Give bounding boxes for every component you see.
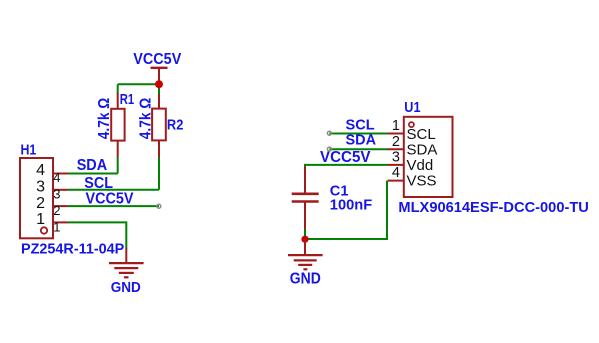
ground GND (right) bar 4 [303,268,307,270]
svg-text:VCC5V: VCC5V [133,51,181,68]
connector H1 pin 2 stub [53,205,68,207]
unconnected wire end dot (SCL) [327,131,331,135]
unconnected wire end dot (SDA) [327,147,331,151]
connector H1 body [20,158,53,238]
resistor R2 top pin [158,94,160,109]
svg-text:GND: GND [111,279,141,296]
wire net SDA (H1 pin4 row) [68,173,118,175]
ground GND (right) bar 2 [294,259,317,261]
wire U1 pin4 VSS down and to junction [305,181,387,239]
svg-text:3: 3 [36,179,45,196]
svg-text:4: 4 [53,170,60,185]
IC U1 pin1 indicator circle [409,122,414,127]
wire net SDA at U1 pin2 [329,148,388,150]
svg-text:3: 3 [392,149,400,165]
svg-text:U1: U1 [404,99,420,116]
wire R1 top vertical (green part) [117,84,119,94]
capacitor C1 plate 1 [292,193,319,196]
IC U1 pin 2 stub [388,148,404,150]
wire VCC5V node to R1 top corner [118,83,159,85]
connector H1 pin 3 stub [53,189,68,191]
svg-text:R2: R2 [167,117,184,134]
IC U1 body [404,117,453,197]
svg-text:VCC5V: VCC5V [320,149,371,166]
svg-text:1: 1 [53,219,60,234]
ground GND (left) bar 1 [109,262,144,264]
ground symbol GND (left): stem [125,248,127,263]
svg-text:PZ254R-11-04P: PZ254R-11-04P [21,241,124,258]
power flag VCC5V top: bar [151,67,168,69]
resistor R2 body [152,109,166,141]
unconnected wire end dot (VCC5V row) [157,204,161,208]
wire R2 bottom to SCL net [158,158,160,190]
svg-text:SDA: SDA [407,142,438,159]
wire H1 pin1 to GND [68,222,126,248]
svg-text:GND: GND [290,270,321,287]
junction dot VCC5V node [155,80,163,88]
resistor R1 top pin [117,93,119,109]
IC U1 pin 1 stub [388,133,404,135]
svg-text:VCC5V: VCC5V [86,191,134,208]
connector H1 pin1 indicator circle [41,227,47,233]
svg-text:4: 4 [36,162,45,179]
ground GND (left) bar 4 [124,276,129,278]
resistor R2 bottom pin [158,140,160,157]
power flag VCC5V top: stem [158,68,160,84]
svg-text:4.7k Ω: 4.7k Ω [138,98,155,140]
connector H1 pin 1 stub [53,221,68,223]
capacitor C1 plate 2 [292,200,319,203]
svg-text:2: 2 [392,134,400,150]
svg-text:SDA: SDA [346,131,377,148]
svg-text:2: 2 [53,203,60,218]
ground symbol GND (right): stem [304,239,306,255]
svg-text:SCL: SCL [84,175,113,192]
capacitor C1 top pin [304,167,306,194]
svg-text:H1: H1 [21,142,37,159]
wire net SCL at U1 pin1 [329,133,388,135]
svg-text:100nF: 100nF [330,196,372,213]
junction dot GND node [301,236,308,243]
connector H1 pin 4 stub [53,173,68,175]
IC U1 pin 4 stub [388,180,404,182]
svg-text:SCL: SCL [407,126,436,143]
svg-text:2: 2 [36,195,45,212]
capacitor C1 bottom pin [304,202,306,230]
svg-text:R1: R1 [120,91,134,108]
svg-text:VSS: VSS [407,173,437,190]
svg-text:1: 1 [392,118,400,134]
wire net SCL (H1 pin3 row) [68,189,159,191]
svg-text:SDA: SDA [77,157,108,174]
svg-text:4: 4 [392,165,400,181]
resistor R1 body [111,109,124,141]
ground GND (left) bar 3 [119,272,134,274]
wire net VCC5V (H1 pin2 row) [68,205,159,207]
wire R1 bottom to SDA net [117,158,119,174]
ground GND (left) bar 2 [114,267,138,269]
svg-text:Vdd: Vdd [407,157,434,174]
wire C1 bottom to junction [304,229,306,239]
svg-text:MLX90614ESF-DCC-000-TU: MLX90614ESF-DCC-000-TU [398,199,589,216]
wire R2 top vertical (green part) [158,88,160,95]
resistor R1 bottom pin [117,141,119,158]
svg-text:3: 3 [53,186,60,201]
IC U1 pin 3 stub [388,164,404,166]
svg-text:4.7k Ω: 4.7k Ω [96,98,113,140]
svg-text:1: 1 [36,211,45,228]
wire net VCC5V to U1 pin3 and C1 [305,165,388,168]
ground GND (right) bar 3 [298,264,312,266]
ground GND (right) bar 1 [288,254,323,256]
